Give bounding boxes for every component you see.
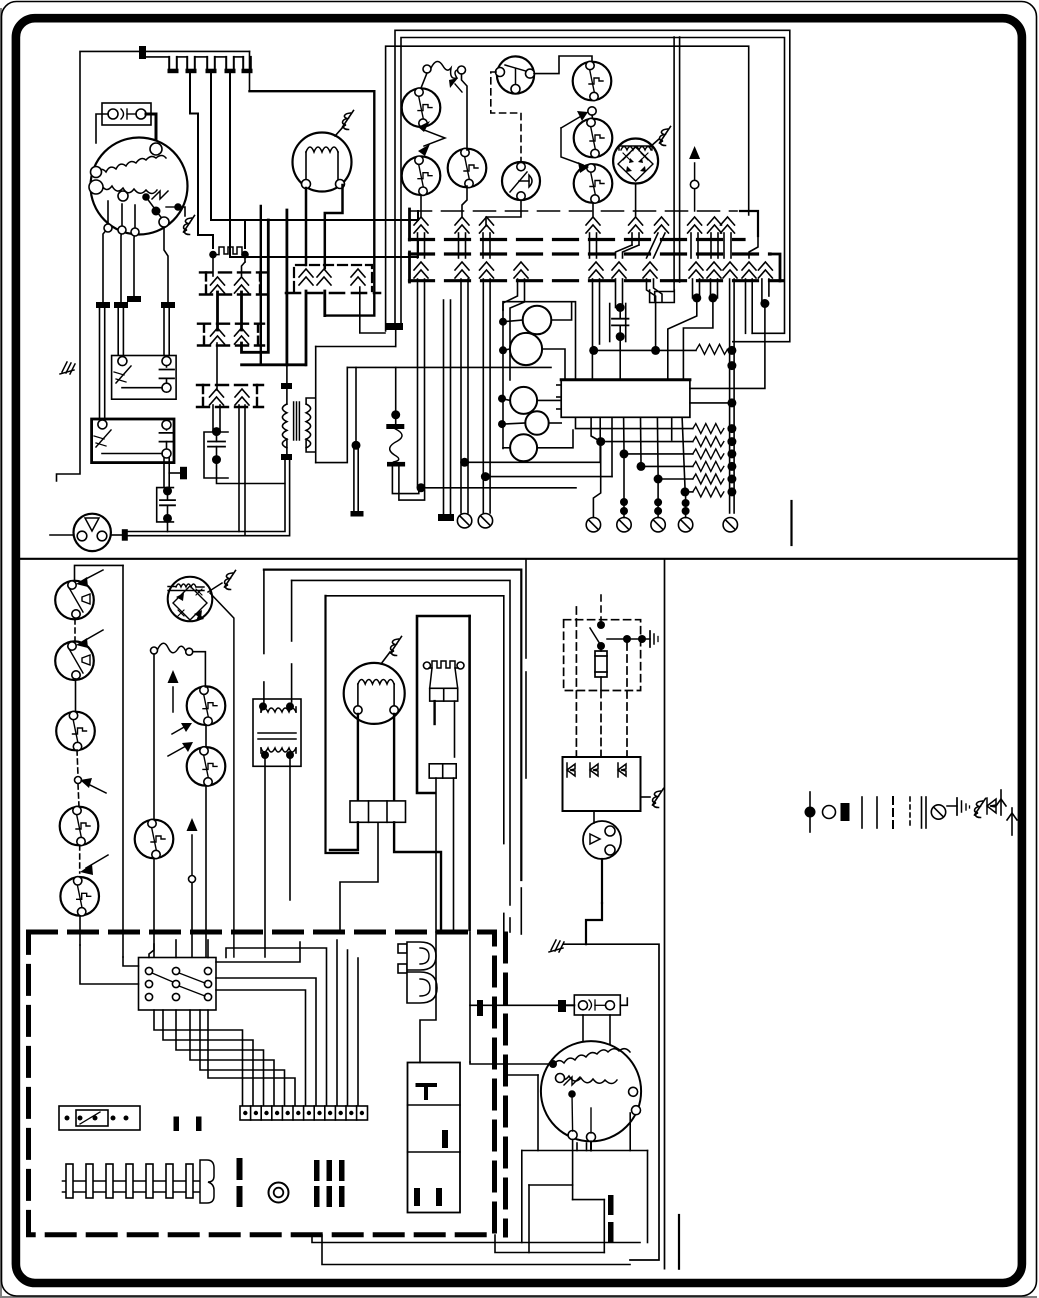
switch S5 [574,118,613,157]
switch S10 [56,711,95,750]
wire: M4 right tap down and right [325,185,343,268]
dashed control relay box [564,620,641,691]
dashed wire L1 left to gas valve [491,72,521,162]
wire: OL1 right lead thick [146,114,156,146]
long vertical from D1 loop down [122,565,124,957]
section divider vertical [664,559,666,1269]
arrow into S12 [80,855,108,875]
relay coil K4 [502,411,561,434]
comb row2 heavy dashed bottom [410,279,784,282]
wire B2 to chassis E and down [208,583,234,957]
OL2 left tick [558,1000,566,1012]
spark igniter SI1 [398,942,437,1003]
wire OL2 feed from 470 vertical [470,1004,558,1006]
thick dash columns [314,1160,345,1207]
legend dashed line [892,797,894,828]
wire 749 pair down to frame return [746,279,753,333]
tick terminator [438,514,454,521]
wire route T2-left loop [264,570,521,880]
wire: comb306 down to T1 tee [305,291,308,365]
wire S9 down [153,859,155,958]
heavy dashed vertical beside unit box [503,934,508,1235]
tap2 terminal circle [118,226,126,234]
screw terminal [723,518,737,532]
wire 696 comb down to dot & board [668,279,702,380]
wire S7-S8 [205,725,207,747]
M2 legs to block [358,714,394,801]
wire dot y350 to board pin 592 [591,350,593,379]
wire V1 down-left to comb [486,200,521,226]
legend screw terminal [931,805,945,819]
cap C3 with bracket above board [610,303,629,342]
fusible link FL1 [423,61,466,92]
T2 output wires down [265,759,290,957]
switch S11 [60,806,99,845]
frame line verticals resume [504,888,522,934]
tall rect frame [326,596,504,844]
rake ground on left frame wire [60,362,75,374]
wire pair 521 down into cluster [503,279,525,380]
M4 enclosure rect [250,91,375,315]
wire: V2 left stub [50,534,74,536]
T1 tee horizontal thick [242,363,306,366]
transformer T1 feed thick vertical [285,210,288,365]
legend flame sensor glyph [987,798,996,814]
main limit switch box LS2 (thick) [92,419,174,463]
legend filled rect [841,803,850,821]
capacitor C2 with bracket [204,427,228,478]
frame inner vertical left pair [655,37,674,301]
double wire from V2 to transformer return [128,459,290,536]
wire below LS2 with side tick [164,458,180,488]
wire S12 down to dashed box [79,916,81,945]
switch S3 [448,148,487,187]
below-box horizontal bundle [312,1235,640,1265]
wire + chassis ground of M1 switch [178,207,185,216]
M3 taps down [573,1113,631,1200]
wire pair down to limit box2 [100,308,105,419]
sensor box [563,757,641,811]
wire chain into block left [80,945,139,984]
tick x480 [477,1000,483,1016]
verticals bottom right [522,1151,605,1253]
OL2 left stub [566,1004,574,1006]
T2 feed wires [264,570,292,702]
lone switch S9 [135,819,174,858]
long gapped vertical 526 [525,560,527,778]
J1 output wires [330,822,441,932]
cluster top feed wire [503,302,576,380]
resistor ladder rows [693,424,724,497]
comb box C (dashed) [197,385,263,407]
resistor R1 [697,344,728,354]
wire 596 comb down to dot [593,279,600,350]
legend double line [922,797,927,828]
wire: drop2 to igniter left [190,73,213,248]
inducer motor M2 [344,663,405,724]
M2 chassis E [381,637,402,665]
arrow into D1 [76,570,103,587]
wire row y1199 [573,1199,605,1201]
flame sensor valve circle [583,821,621,859]
thick wire comb B right down and up to bus line [242,220,269,352]
wire 650 comb down with bracket marks [647,279,675,350]
wire FL1 left to S1 [421,73,427,88]
relay coil cluster spine [502,310,504,449]
igniter leads [435,701,455,757]
switch S6 [574,164,613,203]
wire: V2 right to tick [111,534,122,536]
tick below T1 [281,454,292,460]
wire y1185 [529,1184,573,1186]
relay contact block RB1 [139,958,217,1011]
wire sensor to valve [593,811,595,823]
wire S3 down to comb [462,186,467,216]
screw terminal [457,514,471,528]
OL2 to motor leads [583,1015,610,1045]
wire chevron358 to tick [360,287,385,333]
wire: drop4 to middle block [230,73,418,257]
legend fine dashed line [909,797,911,828]
blower motor M3 [541,1041,641,1141]
dashed feed above relay box [600,595,602,621]
washer grommet [269,1183,289,1203]
screw 685 riser with dots [682,495,690,518]
comb row1 heavy dashed bottom [410,238,745,241]
wire: pin600 left to screw 464 [460,458,600,467]
hot surface igniter HSI2 [423,661,464,701]
wire 765 comb down to dot [690,279,770,388]
overload protector OL1 box [102,103,151,125]
comb row1 right bracket [740,211,758,236]
wire single to dot and pair to tick [352,367,361,511]
comb box B (dashed) [198,324,264,346]
comb row2 chevrons [414,262,772,278]
flame sense rod arrow [689,146,700,211]
fan-out to bottom screws [0,0,1,1]
arrow into node [80,778,106,793]
wire: pin612 left to screw 485 [481,472,612,481]
wire 714 comb down to dot & board [683,279,717,380]
screws bottom mid group [586,518,693,532]
relay coil K2 [503,333,565,380]
tick terminator tap4 [161,302,175,308]
thermal fuse squiggle [151,643,193,655]
cluster dot 2 [499,346,507,354]
comb row2 heavy dashed top [410,252,771,255]
transformer T2 [253,699,301,766]
wire squiggle left down to S9 [153,654,155,820]
tick pair x239 [237,1158,243,1180]
tick right of LS2 wire [180,467,187,480]
transformer T1 [282,402,310,448]
wire D2-S10 [75,679,77,712]
wire from RC1 bottom joining V2 pair [167,522,169,532]
wire S6 to comb row1 [592,203,594,216]
tick terminator tap3 [127,296,141,302]
screw 658 riser with dots [654,483,662,518]
tick terminator tap1 [96,302,110,308]
wire: bus hook to M4 rect [249,51,251,91]
screw column with dots [727,279,736,513]
wire S8 down to box [205,786,207,957]
wire row y1150 [522,1150,648,1152]
arrow into D2 [76,630,103,648]
wire T1 primary bottom to tick [286,439,288,454]
blower overload box OL2 [574,995,620,1015]
wire comb B left down to comb C [216,343,218,390]
wire pair 421 down to tick [417,279,577,492]
interior vertical wires right side [420,932,470,1063]
limit control L1 [496,56,535,93]
cluster dot 1 [499,318,507,326]
scan shadow bottom edge [0,1296,1037,1298]
heavy dashed enclosure [29,932,495,1235]
legend solid line 1 [861,797,863,828]
motor tap 1 [103,201,108,302]
legend row [805,790,1018,835]
wire S2 to comb row1 [420,195,422,216]
pressure drain valve circle V2 [74,514,111,551]
igniter HSI1 crenellated [209,247,249,258]
wire C3 bottom to board top pin [619,337,621,380]
node circle under S4 [588,107,596,115]
dashed verticals to sensor box [576,607,627,757]
thick dash marks x608 [608,1195,614,1242]
screw 624 riser with dots [620,458,628,518]
wire L1 right to S4 [534,56,592,74]
wire: M4 left tap down to comb [305,188,308,265]
control board CB1 [561,380,690,418]
wire pair down to limit box1 right [164,308,169,355]
legend junction dot [805,792,816,832]
up arrow flame [187,818,198,957]
aux limit switch box LS1 [112,356,177,400]
gas valve assembly GV1 [408,1063,461,1213]
rake ground bottom [549,940,564,952]
spark bridge igniter B1 [613,139,658,184]
dashed wire with node [75,750,82,807]
OL2 right hook [620,998,627,1005]
fan-out wires right of block [216,942,300,962]
flame arrow 1 [561,111,588,128]
heating element coil [63,1160,215,1203]
frame nested top right [386,46,749,331]
dashed wire D1-D2 [74,619,76,641]
wire below connector [436,778,454,932]
board right pin to screw column [690,402,730,404]
wire pair 487 down to screw [483,279,490,513]
board left pin stubs [557,385,561,409]
relay coil K3 [502,387,561,414]
sensor box chassis E [641,789,664,808]
wire node to S5 [591,115,594,119]
connector block 2cell [429,764,456,778]
motor tap 3 [134,205,135,296]
comb row1 chevrons [414,217,735,233]
comb row2 right bracket [770,254,780,281]
wire pair down to limit box1 left [118,308,123,355]
tick on T1 primary lead [281,383,292,389]
wire comb C right leg down [239,405,245,536]
door switch D1 [55,581,94,620]
legend solid line 2 [876,797,878,828]
frame outer [395,30,790,341]
pressure switch S2 [402,156,441,195]
wire y1064 to motor dot [470,1062,549,1064]
door switch D2 [55,641,94,680]
frame inner [401,38,785,334]
wire squiggle to S7 [193,652,205,687]
comb box under M4 (dashed) [286,265,380,293]
wire: top L1 bus [57,51,250,481]
scan shadow left edge [0,8,2,1298]
double arrows S7-S8 [168,723,193,756]
wire M4 to chassis E [335,127,343,136]
flame arrow 2 [561,128,589,173]
wire horizontal to right vertical [564,944,659,1260]
ladder left feed wires with dots [576,417,693,496]
T1 secondary 24V loop [306,347,396,463]
wire D1 top loop [75,565,124,581]
tick terminator [351,511,364,517]
bridge rectifier B2 [168,577,213,622]
wire below C2 [217,464,285,484]
board top edge thick [561,378,690,381]
switch S4 [573,61,612,100]
wire pair 443 down to tick [444,300,451,514]
stair bundle wires [154,940,358,1106]
tick pair near JB1 [174,1117,180,1132]
tick terminator tap2 [114,302,128,308]
wire B1 down to comb [635,184,637,217]
gas valve V1 [502,162,540,200]
wire S3 up to FL1 right [462,74,468,150]
arrows between S1 S2 [418,121,445,156]
wires into block top [149,940,208,958]
motor tap 4 from switch [164,228,168,302]
relay coil K1 [503,302,572,334]
run capacitor RC1 [157,487,175,523]
wire: drop3 to igniter right and middle block [211,73,418,248]
section divider line [21,558,1018,560]
cluster dot 3 [498,395,506,403]
wire tick down to 24V loop top [395,330,397,346]
inducer motor M1 [89,138,188,235]
wire pair 619 comb to C3 [616,279,623,308]
legend connector down [996,790,1006,815]
ground branch in relay box [607,631,658,647]
wire pair from bus to tick 392 [385,323,403,330]
board bottom pins [600,417,685,487]
legend connector up [1007,808,1017,835]
comb row2 left bracket [408,252,411,282]
wire B1 to chassis E [650,139,659,147]
cluster dot 4 [498,420,506,428]
blower fan motor M4 [293,133,352,192]
comb row1 left bracket [408,209,411,240]
low voltage terminal strip TS1 [240,1106,368,1120]
bus plug bars with stem pairs [169,57,251,69]
wire: comb324 down to rect bottom [323,291,326,316]
wire pair comb C down to cap C2 [213,405,220,432]
short mark right [790,501,792,545]
tick after V2 [122,529,128,541]
thermal element squiggle [386,424,405,467]
wire route T2-right loop [292,580,510,905]
wire valve down [586,859,602,944]
U-wires from squiggle to pair421 dot [392,467,424,501]
switch S12 [60,877,99,916]
screw terminal [478,514,492,528]
wire 505-538 branch [506,1075,539,1151]
wire R1 to column [728,349,732,350]
junction connector JB1 [59,1106,140,1130]
wire: igniter leads into comb A [213,258,245,276]
comb box A (dashed) below igniter [200,272,266,294]
switch S7 [187,686,226,725]
vertical x647 [647,1151,649,1243]
tick on bus [139,46,146,59]
up arrow near S7 [168,670,179,712]
motor tap 2 [121,204,122,302]
tap1 terminal circle [104,224,112,232]
legend ground symbol [947,798,970,815]
legend open circle [823,806,836,819]
vertical x529 [528,1185,530,1253]
legend chassis E [975,799,986,818]
dashed wire S11-S12 [79,845,81,873]
tap3 terminal circle [131,228,139,236]
pressure switch S1 [402,88,441,127]
wire: pin671 jog down to screw 593 [0,0,1,1]
frame vertical 680 [679,37,681,282]
wire pair 462 down to screw [461,279,468,513]
bus serpentine second line [146,56,243,58]
junction block J1 [350,801,406,822]
horizontal wire y350 with dots [589,346,696,355]
wire pairs row1 to row2 [418,233,759,258]
thick wire pair comb A to comb B [218,292,242,330]
tall rect left edge [326,596,359,853]
wire: OL1 left lead [96,114,108,143]
heavy bracket around igniter column [417,616,470,930]
switch S8 [187,747,226,786]
short dash mark [678,1215,680,1269]
comb row1 thin dashed line [410,210,738,212]
wire lineA to squiggle top [391,367,400,424]
relay coil K5 [503,430,573,461]
horizontal wire y367 [347,366,551,368]
screw 593 riser [593,446,600,518]
wire tick to coil [286,366,288,404]
